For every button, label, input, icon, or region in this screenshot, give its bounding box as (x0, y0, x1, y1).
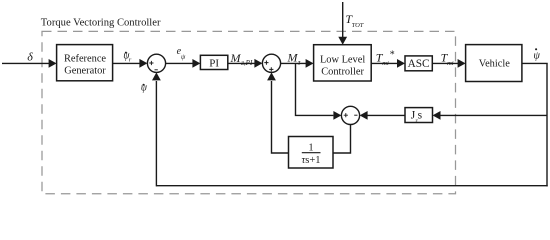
wire: right feedback vertical (546, 63, 548, 186)
label: T_mi_star (376, 50, 395, 67)
summer S2 (262, 54, 280, 72)
wire: Low Level Controller to ASC (371, 62, 398, 64)
wire: lag block output to summer S2 (272, 81, 289, 153)
arrowhead T_TOT into Low Level Controller (338, 37, 347, 45)
svg-text:1: 1 (308, 142, 313, 153)
block: Reference Generator (57, 45, 113, 81)
svg-text:ASC: ASC (408, 58, 430, 70)
svg-text:Generator: Generator (64, 66, 106, 77)
arrowhead into Low Level Controller (306, 59, 314, 68)
arrowhead into Jzs block (433, 111, 441, 120)
block: PI (200, 55, 227, 69)
svg-text:τs+1: τs+1 (301, 155, 320, 166)
arrowhead into Reference Generator (49, 59, 57, 68)
wire: S1 to PI (166, 62, 193, 64)
block: Jzs (405, 108, 433, 123)
svg-text:Controller: Controller (321, 67, 364, 78)
label: T_mi (441, 51, 454, 67)
svg-text:ψ: ψ (181, 53, 186, 61)
svg-text:TOT: TOT (352, 22, 364, 29)
arrowhead into ASC (397, 59, 405, 68)
label: psi_dot output (533, 48, 540, 61)
arrowhead into Vehicle (458, 59, 466, 68)
label: psi_dot_r (123, 51, 132, 64)
summer S1 (147, 54, 165, 72)
svg-text:z,PI: z,PI (240, 59, 253, 67)
arrowhead into summer S2 (254, 59, 262, 68)
svg-text:mi: mi (447, 60, 454, 67)
wire: ASC to Vehicle (432, 62, 458, 64)
wire: T_TOT input from top (342, 2, 344, 38)
dashed boundary: Torque Vectoring Controller (42, 31, 456, 193)
arrowhead into summer S3 left (333, 111, 341, 120)
summer S3 (341, 106, 359, 124)
arrowhead into summer S1 (139, 59, 147, 68)
label: psi_dot feedback (141, 82, 148, 93)
arrowhead into summer S1 bottom (152, 72, 161, 80)
wire: feedback rise to summer S1 (155, 81, 157, 186)
label: M_z (287, 50, 301, 66)
wire: M_z branch down to summer S3 (296, 64, 334, 115)
svg-text:M: M (287, 50, 299, 64)
wire: Reference Generator to summer S1 (113, 62, 140, 64)
arrowhead into summer S2 bottom (267, 72, 276, 80)
svg-text:ψ: ψ (533, 50, 540, 61)
svg-text:s: s (418, 110, 423, 122)
wire: bottom feedback psi_dot (156, 185, 547, 187)
wire: S3 output down to lag block (333, 125, 351, 154)
block: Vehicle (466, 45, 522, 82)
label: e_psi (177, 46, 186, 61)
svg-text:δ: δ (27, 49, 33, 63)
wire: feedback branch to Jzs (440, 114, 547, 116)
svg-text:Low Level: Low Level (320, 54, 365, 65)
wire: Jzs to summer S3 (367, 114, 405, 116)
svg-text:mi: mi (382, 60, 389, 67)
wire: PI to summer S2 (228, 62, 255, 64)
arrowhead into PI (192, 59, 200, 68)
svg-text:Vehicle: Vehicle (479, 59, 511, 70)
svg-text:M: M (230, 51, 242, 65)
wire: Vehicle output psi_dot (522, 62, 548, 64)
svg-text:z: z (297, 58, 301, 66)
arrowhead into summer S3 right (360, 111, 368, 120)
wire: delta input (2, 62, 49, 64)
wire: S2 to Low Level Controller (281, 62, 307, 64)
svg-text:ψ: ψ (141, 82, 148, 93)
block: ASC (405, 56, 432, 71)
block: Low Level Controller (314, 45, 372, 81)
svg-text:*: * (390, 50, 395, 61)
svg-text:Reference: Reference (64, 54, 106, 65)
label: T_TOT (345, 12, 363, 29)
svg-text:PI: PI (209, 57, 219, 69)
block: lag filter 1/(tau s + 1) (289, 137, 334, 169)
svg-text:Torque Vectoring Controller: Torque Vectoring Controller (41, 17, 161, 28)
label: M_z,PI (230, 51, 253, 67)
